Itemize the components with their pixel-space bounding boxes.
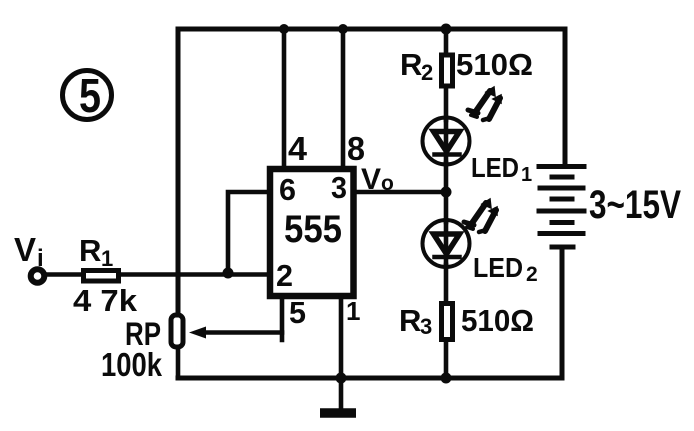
svg-text:3: 3 (331, 170, 347, 205)
wire right rail lower (560, 247, 565, 378)
op-amp U1 555 timer box (270, 169, 354, 296)
wire R2 to LED1 (444, 88, 449, 120)
svg-text:100k: 100k (101, 346, 163, 383)
wire Vi to R1 (45, 272, 82, 277)
LED2 diode (423, 220, 470, 267)
svg-text:3~15V: 3~15V (589, 183, 681, 227)
label R3 (399, 303, 432, 339)
svg-text:510Ω: 510Ω (461, 303, 534, 338)
battery B1 (539, 167, 584, 248)
svg-text:LED: LED (473, 252, 523, 283)
LED1 emission arrows (468, 87, 501, 120)
svg-text:2: 2 (421, 60, 433, 85)
wire pin 4 (282, 29, 287, 167)
label LED2 (473, 252, 538, 286)
ground (320, 408, 356, 418)
resistor R1 (84, 271, 119, 282)
svg-text:i: i (37, 245, 44, 272)
svg-text:R: R (79, 233, 101, 268)
label Vo (361, 163, 394, 196)
node Vo-LED junction (441, 187, 452, 198)
svg-text:4: 4 (288, 130, 308, 167)
svg-text:6: 6 (279, 172, 296, 207)
wire pin 6 bracket (228, 192, 270, 273)
node R2 top junction (441, 24, 452, 35)
svg-text:8: 8 (347, 130, 365, 167)
wire pin 5 lead (280, 296, 285, 340)
svg-text:1: 1 (521, 164, 532, 186)
wire pin 1 to ground (339, 296, 344, 410)
svg-text:o: o (381, 172, 394, 195)
svg-text:3: 3 (420, 314, 432, 339)
LED2 emission arrows (464, 199, 497, 232)
node pin4 top junction (279, 24, 289, 34)
node pin6-pin2 junction (223, 268, 234, 279)
LED1 diode (423, 118, 470, 165)
wire R1 to pin 2 (120, 272, 270, 277)
label LED1 (471, 152, 532, 186)
svg-text:R: R (399, 303, 421, 338)
label R2 (400, 47, 433, 85)
wire pin 8 (341, 29, 346, 167)
wire R3 to bottom rail (444, 340, 449, 378)
resistor R2 (442, 55, 453, 86)
svg-text:R: R (400, 47, 422, 82)
wire left rail lower (RP to bottom) (176, 349, 181, 378)
svg-text:1: 1 (101, 246, 113, 271)
node R3 bottom-rail junction (441, 373, 452, 384)
wire R2 top lead (444, 29, 449, 54)
resistor R3 (442, 304, 453, 340)
wire top rail (178, 27, 565, 32)
label R1 (79, 233, 113, 271)
node pin8 top junction (338, 24, 348, 34)
svg-text:2: 2 (526, 263, 538, 286)
node pin1 bottom-rail junction (336, 373, 347, 384)
wire bottom rail (178, 376, 562, 381)
svg-text:1: 1 (346, 296, 360, 326)
wire left rail (176, 29, 181, 314)
potentiometer RP body (171, 315, 183, 347)
svg-text:V: V (14, 231, 36, 268)
svg-text:5: 5 (289, 295, 306, 330)
svg-text:2: 2 (276, 258, 293, 293)
wire right rail upper (563, 29, 568, 166)
svg-text:555: 555 (284, 208, 342, 251)
wire LED2 to R3 (444, 265, 449, 302)
wire LED1 to LED2 (444, 163, 449, 222)
svg-text:4 7k: 4 7k (73, 283, 138, 318)
figure number badge 5 (63, 70, 112, 123)
potentiometer RP wiper arrow (189, 327, 206, 339)
node Vi input terminal (31, 269, 45, 283)
svg-text:LED: LED (471, 152, 519, 183)
svg-text:V: V (361, 163, 381, 196)
svg-text:5: 5 (79, 70, 101, 123)
wire pin 3 output (353, 190, 446, 195)
label Vi (14, 231, 44, 272)
svg-text:510Ω: 510Ω (456, 47, 533, 82)
